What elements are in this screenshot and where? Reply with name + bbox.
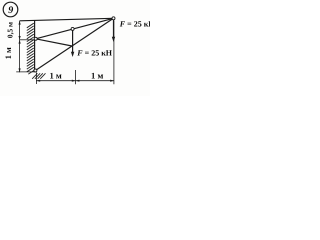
extension line to C xyxy=(16,71,34,73)
svg-text:F = 25 кН: F = 25 кН xyxy=(76,49,113,58)
svg-text:9: 9 xyxy=(8,5,13,16)
svg-text:1 м: 1 м xyxy=(49,71,61,81)
node E xyxy=(71,27,74,30)
node C xyxy=(34,69,37,72)
extension line to B xyxy=(20,39,35,41)
svg-text:1 м: 1 м xyxy=(91,71,103,81)
member B-E-D xyxy=(36,18,114,39)
force arrow at G (middle), F = 25 kN xyxy=(71,30,74,58)
left dimension line xyxy=(16,21,35,72)
bottom dimension line xyxy=(36,21,114,85)
svg-text:1 м: 1 м xyxy=(4,47,13,59)
wall line (post A-B-C) xyxy=(34,21,36,71)
middle tick xyxy=(75,70,77,84)
force arrow at D (top right), F = 25 kN xyxy=(112,20,115,42)
member C-G-D xyxy=(35,18,113,70)
problem number circle 9 xyxy=(3,2,18,17)
member B-G xyxy=(36,39,73,46)
node B xyxy=(34,37,37,40)
wall hatching xyxy=(27,23,34,74)
left tick below C xyxy=(35,73,37,85)
right extension from D xyxy=(113,21,115,85)
top chord A-D xyxy=(20,18,114,21)
svg-text:F = 25 кН: F = 25 кН xyxy=(119,20,150,29)
node D xyxy=(112,17,115,20)
bottom dim arrows xyxy=(36,80,40,82)
support ground hatch under C xyxy=(32,73,45,79)
svg-text:0,5 м: 0,5 м xyxy=(5,22,14,38)
left dim arrows xyxy=(19,21,21,25)
